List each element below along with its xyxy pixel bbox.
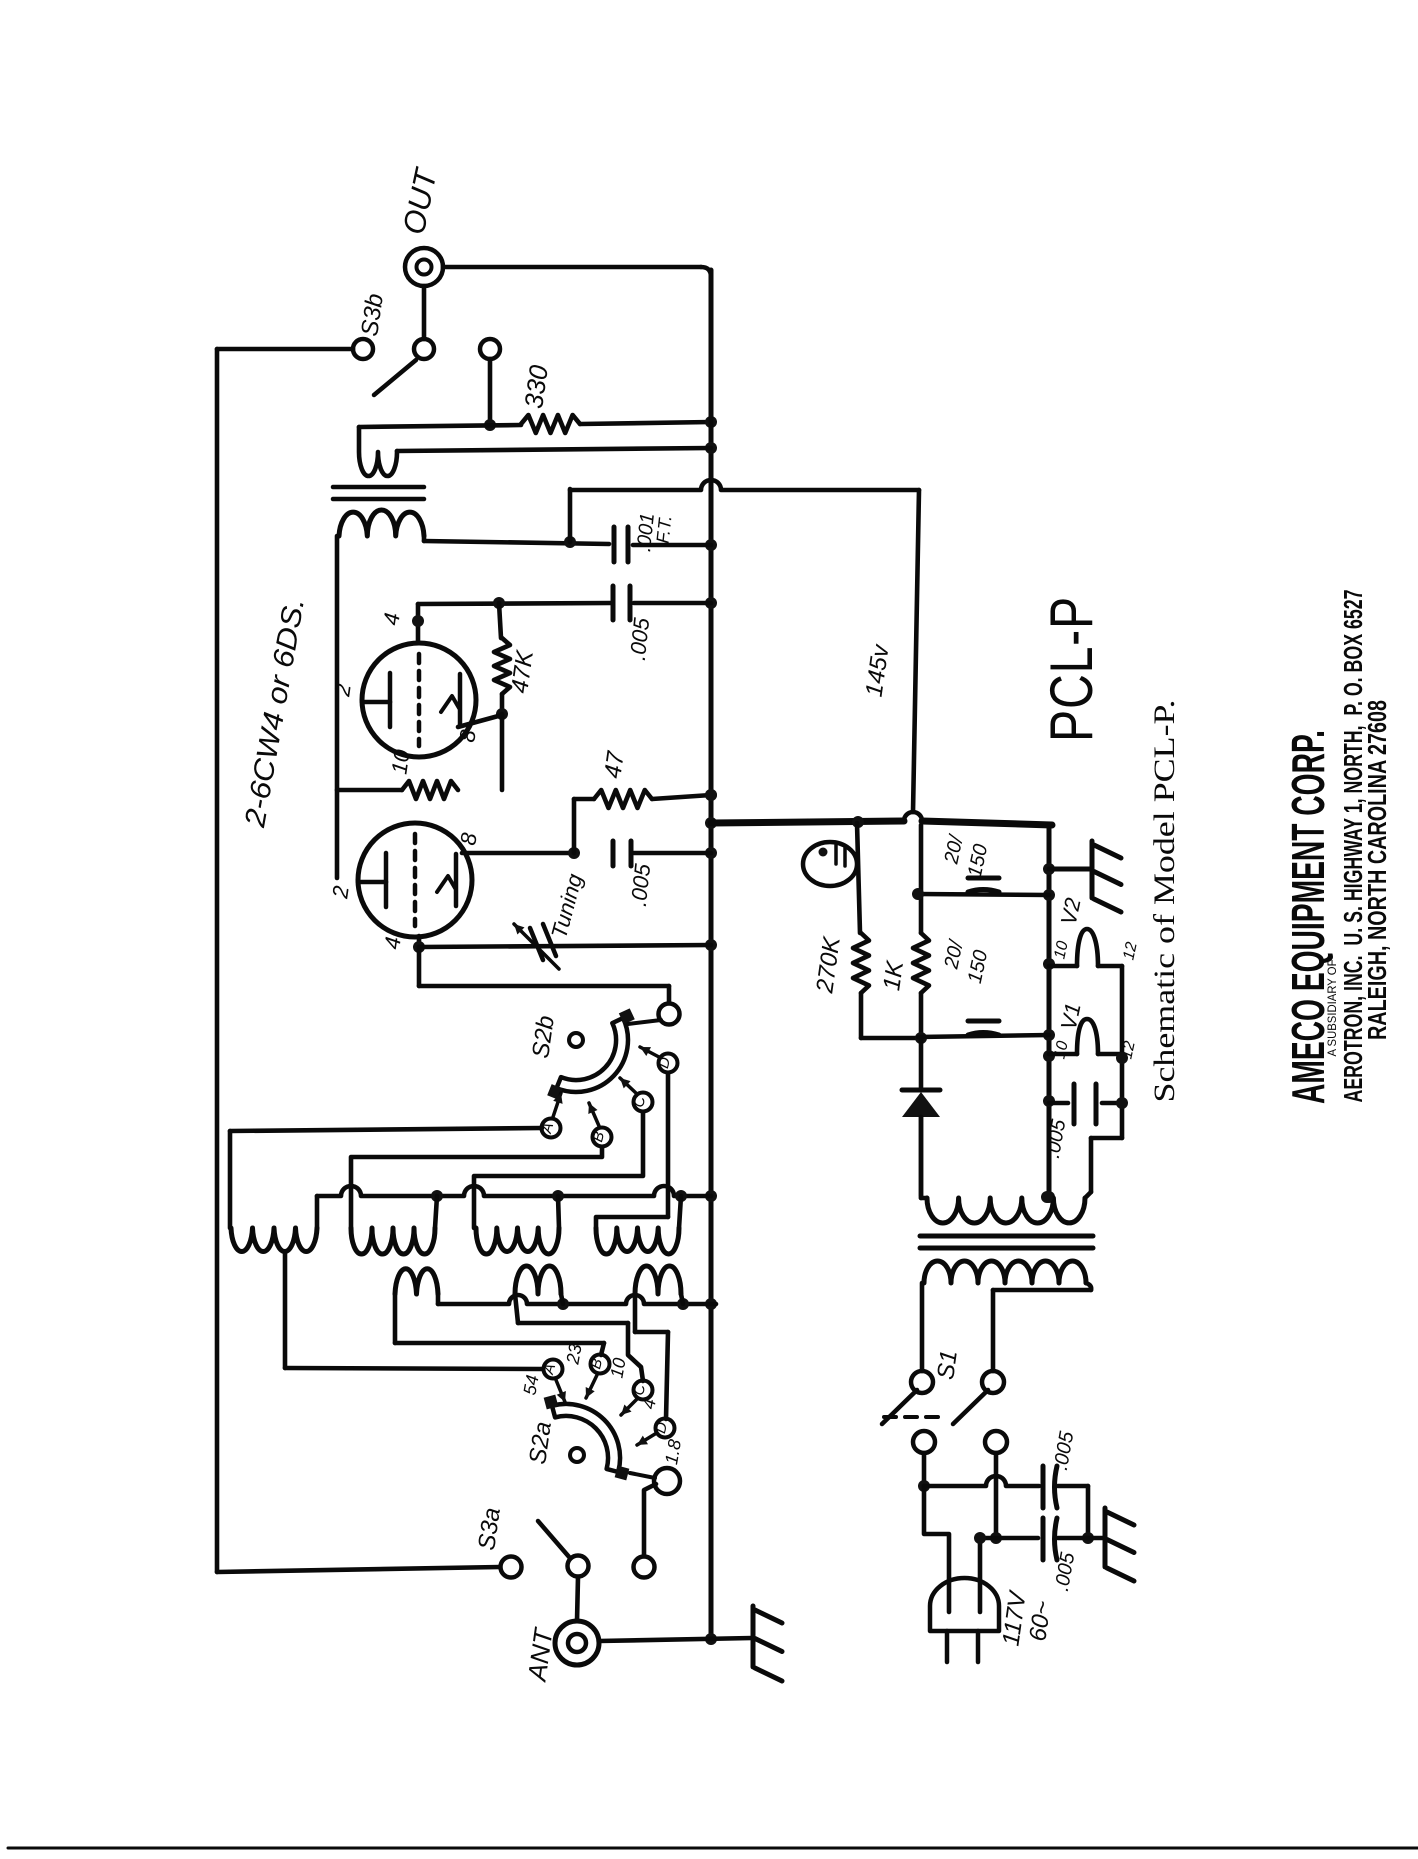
svg-text:F.T.: F.T.: [653, 514, 676, 544]
svg-text:A SUBSIDIARY OF: A SUBSIDIARY OF: [1325, 960, 1339, 1057]
svg-text:RALEIGH, NORTH CAROLINA 27608: RALEIGH, NORTH CAROLINA 27608: [1362, 700, 1392, 1040]
svg-text:1K: 1K: [878, 959, 909, 993]
svg-text:23: 23: [562, 1342, 585, 1366]
svg-text:10: 10: [1051, 1039, 1071, 1060]
svg-text:54: 54: [520, 1373, 543, 1396]
svg-text:47: 47: [599, 748, 630, 780]
svg-text:PCL-P: PCL-P: [1038, 596, 1105, 742]
svg-text:330: 330: [518, 363, 554, 411]
svg-text:10: 10: [607, 1356, 630, 1379]
svg-text:1.8: 1.8: [661, 1438, 685, 1466]
svg-text:12: 12: [1120, 940, 1140, 961]
svg-text:10: 10: [1051, 939, 1071, 960]
svg-text:.005: .005: [626, 862, 655, 908]
svg-text:Schematic of Model PCL-P.: Schematic of Model PCL-P.: [1148, 700, 1181, 1103]
svg-text:S1: S1: [932, 1349, 963, 1382]
svg-text:.005: .005: [625, 616, 654, 662]
svg-text:10: 10: [386, 747, 414, 775]
svg-text:60~: 60~: [1024, 1599, 1056, 1643]
